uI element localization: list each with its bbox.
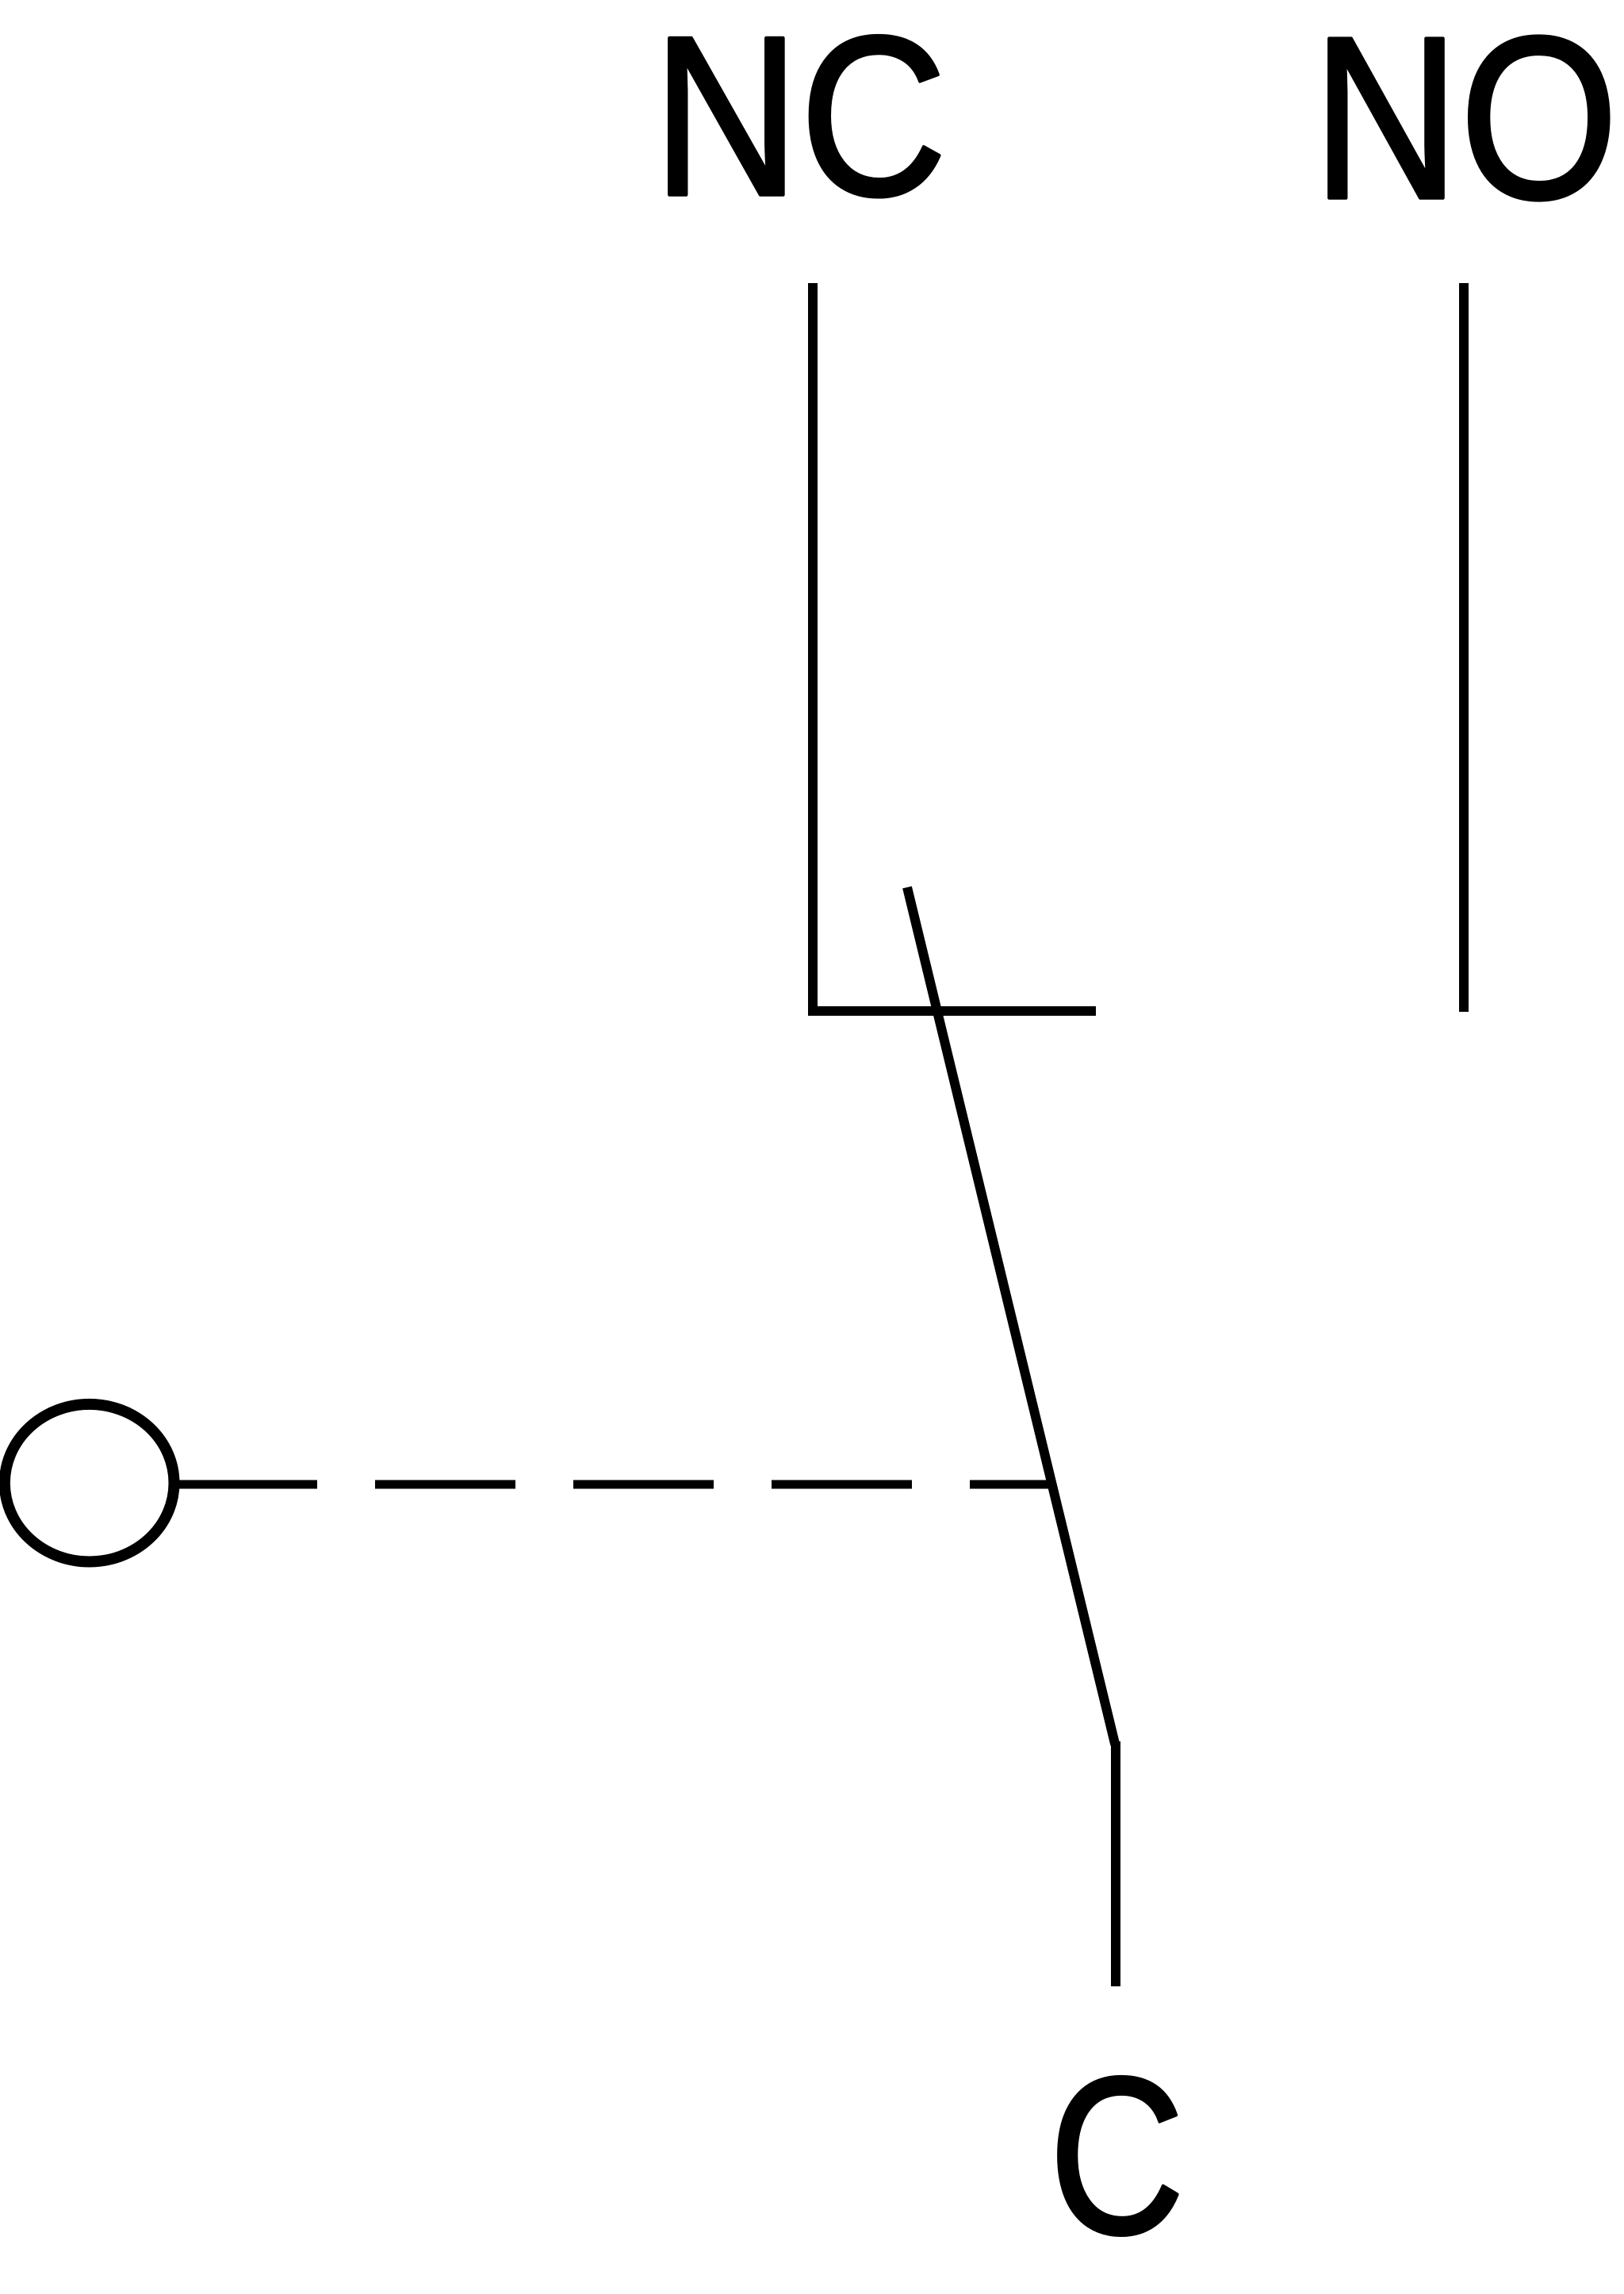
NC terminal wire [808,283,818,1016]
svg-text:C: C [1049,2031,1185,2281]
NC fixed contact bar [808,1006,1096,1016]
common moving contact (pole) [907,887,1116,1744]
svg-text:NO: NO [1312,0,1618,247]
C terminal wire [1111,1741,1120,1986]
svg-text:NC: NC [653,0,947,243]
actuator pushbutton head [5,1404,174,1562]
NO terminal wire [1459,283,1469,1012]
mechanical coupling dashed link [177,1480,1055,1489]
